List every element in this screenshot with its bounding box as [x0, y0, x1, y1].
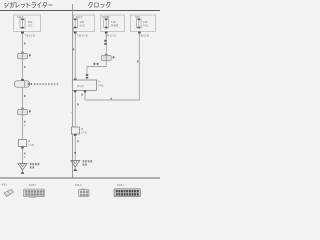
fuse F3 (DOME) — [104, 19, 109, 29]
wire color label B — [77, 104, 79, 106]
ground label (body earth, tiny) — [83, 160, 93, 166]
svg-text:4-B (: 4-B ( — [2, 184, 8, 187]
svg-text:7-B (C-3): 7-B (C-3) — [77, 33, 88, 37]
wire color label L — [24, 43, 26, 45]
junction block box (clock, fuse 1) — [74, 15, 95, 32]
svg-text:15A: 15A — [28, 20, 33, 24]
ground (body earth, clock) — [71, 161, 80, 172]
pin pair on wire — [104, 40, 106, 42]
inline connector C3 — [101, 54, 114, 61]
wire tick — [24, 125, 25, 126]
title: kurokku (clock) — [88, 2, 110, 7]
wire color label B-W — [94, 63, 99, 65]
ground label (body earth, tiny) — [30, 163, 40, 169]
pin label 3 — [81, 94, 83, 96]
pin below junction block — [21, 32, 24, 34]
pin of cigarette lighter — [21, 79, 24, 81]
ground (body earth, left) — [18, 164, 27, 174]
wire: fuse3 down and left to clock illumination — [85, 34, 139, 101]
svg-text:(7-6): (7-6) — [98, 84, 103, 87]
svg-text:5-B (=: 5-B (= — [75, 184, 82, 187]
svg-text:ACC F: ACC F — [76, 16, 84, 19]
wire tick — [24, 156, 25, 157]
junction block box (clock, fuse 3) — [131, 15, 156, 32]
svg-text:91-B =: 91-B = — [117, 184, 125, 187]
svg-text:7-B (C-1): 7-B (C-1) — [105, 33, 116, 37]
junction block box (clock, fuse 2) — [101, 15, 125, 32]
connector view B (multi-pin) — [24, 189, 45, 198]
wire: J2 to ground — [74, 136, 76, 161]
wire: clock ground path — [74, 92, 76, 127]
wire color label — [73, 48, 75, 50]
pin above clock left — [74, 78, 76, 80]
page background — [0, 0, 160, 200]
inline connector C2 — [18, 108, 31, 115]
wire color label B — [24, 121, 26, 123]
header rule — [0, 10, 160, 12]
clock U1 — [72, 80, 96, 90]
svg-text:CIG: CIG — [28, 23, 33, 27]
wire: fuse2 down — [105, 34, 107, 54]
fuse F2 (ACC) — [73, 19, 78, 29]
wire color label — [24, 95, 26, 97]
fuse F4 (TAIL) — [137, 19, 142, 29]
inline connector C1 — [18, 52, 31, 59]
fuse F (cigarette lighter 15A) — [20, 19, 25, 29]
wire: J1 to ground — [22, 148, 24, 163]
connector view A (2-pin, perspective) — [4, 189, 14, 196]
wire dot on illumination line — [110, 98, 112, 100]
label: shigaretto raita (component name, tiny) — [34, 83, 58, 85]
pin pair above clock — [86, 74, 88, 76]
wire dot — [74, 152, 76, 154]
svg-text:7-B (C-3): 7-B (C-3) — [25, 34, 36, 38]
connector view C (6-pin) — [79, 188, 90, 196]
wire tick — [72, 112, 73, 113]
pin below clock left — [74, 91, 76, 93]
svg-text:ACC: ACC — [80, 23, 86, 27]
connector view D (wide multi-pin) — [114, 189, 141, 197]
svg-text:DOME: DOME — [111, 23, 119, 27]
svg-text:TAIL: TAIL — [143, 23, 149, 27]
section divider — [72, 4, 74, 178]
wire color label — [24, 66, 26, 68]
cigarette lighter element — [15, 81, 33, 87]
wire: fuse1 to clock — [74, 34, 76, 81]
svg-text:15A: 15A — [143, 20, 148, 24]
junction block box (left) — [14, 15, 41, 32]
wire: fuse to connector (left) — [22, 34, 24, 54]
wire: connector to lighter — [22, 59, 24, 81]
title: shigaretto raita (cigarette lighter) — [4, 2, 52, 8]
svg-text:(7-3): (7-3) — [29, 144, 34, 147]
wire: lighter to connector 2 — [22, 87, 24, 109]
junction connector J2 — [71, 127, 79, 136]
svg-text:7.5A: 7.5A — [111, 20, 117, 24]
svg-text:(7-3): (7-3) — [81, 131, 86, 134]
svg-text:91-B =: 91-B = — [29, 184, 37, 187]
wire color label G — [137, 60, 139, 62]
wire color label — [24, 153, 26, 155]
wire: connector 2 to junction J1 — [22, 115, 24, 140]
pin below junction block — [74, 32, 77, 34]
pin below junction block — [105, 32, 108, 34]
pin below clock right — [84, 91, 86, 93]
pin below junction block — [138, 32, 141, 34]
junction connector J1 — [19, 140, 27, 149]
bottom rule — [0, 177, 160, 179]
wire: connector down and left to clock — [87, 61, 106, 74]
svg-text:W (C): W (C) — [77, 84, 84, 88]
wire color label — [77, 140, 79, 142]
svg-text:7-B (C-5): 7-B (C-5) — [139, 33, 150, 37]
svg-text:15A: 15A — [80, 20, 85, 24]
